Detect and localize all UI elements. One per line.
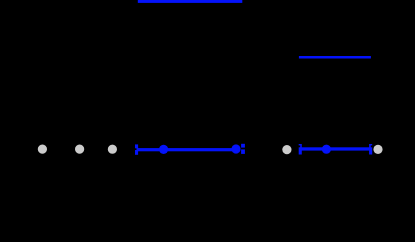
gray point 3 <box>108 145 117 154</box>
interval 2 point <box>322 145 331 154</box>
interval 2 right cap notch (black overdraw) <box>371 145 373 147</box>
gray point 5 <box>373 145 382 154</box>
interval 2 left cap notch (black overdraw) <box>298 145 300 147</box>
interval 1 right cap lower segment <box>241 149 245 154</box>
interval 2 left cap <box>299 144 302 155</box>
significance bar 1 (top, clipped at image top) <box>138 0 243 3</box>
interval 2 whisker line <box>300 147 370 150</box>
gray point 2 <box>75 145 84 154</box>
significance bar 2 <box>299 56 371 59</box>
interval 1 point B <box>231 144 240 153</box>
interval 1 whisker line <box>137 148 236 151</box>
interval 1 right cap upper segment <box>241 144 245 148</box>
interval 2 right cap <box>369 144 372 155</box>
gray point 1 <box>38 145 47 154</box>
interval 1 left cap notch (black overdraw) <box>135 148 137 150</box>
gray point 4 <box>282 145 291 154</box>
interval 1 point A <box>159 145 168 154</box>
interval 1 left cap <box>135 144 138 154</box>
